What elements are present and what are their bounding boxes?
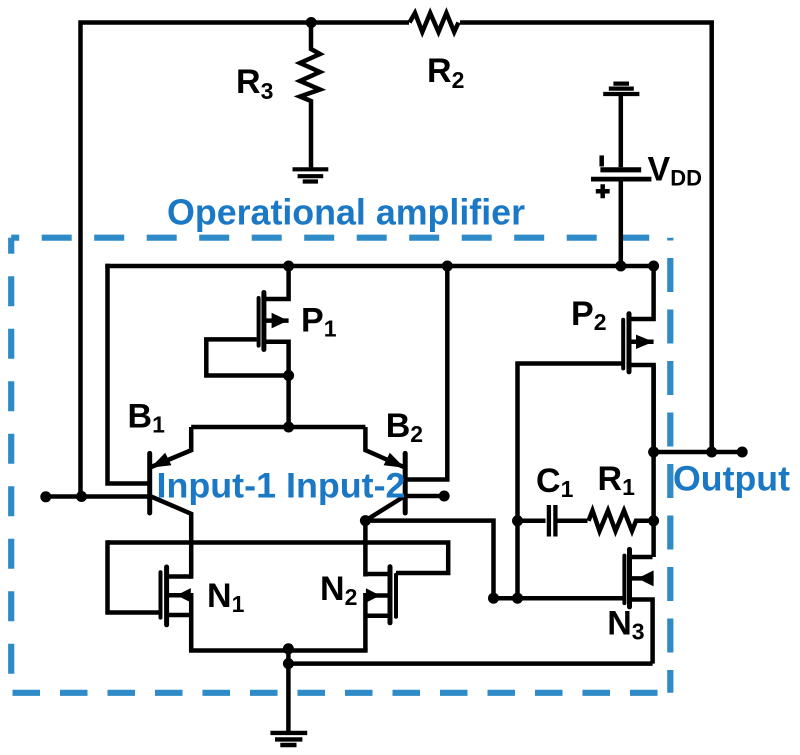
transistor N2 channel bar bbox=[388, 567, 393, 623]
transistor P1 body lead bbox=[265, 318, 289, 323]
wire bottom tail rail bbox=[189, 648, 368, 653]
transistor B2 collector lead bbox=[365, 497, 404, 577]
wire N1 source down bbox=[189, 593, 194, 651]
node ground branch bbox=[283, 658, 294, 669]
wire P2 gate bbox=[518, 364, 626, 599]
wire C1 to R1 bbox=[558, 519, 588, 524]
transistor P1 drain lead bbox=[265, 342, 289, 376]
wire B1 base input bbox=[47, 494, 148, 499]
transistor N1 source lead bbox=[168, 613, 191, 618]
battery VDD long plate bbox=[591, 177, 651, 182]
wire VDD top bbox=[619, 96, 624, 167]
wire inner-right edge to B2 base bbox=[407, 266, 447, 480]
resistor R2 bbox=[410, 13, 459, 32]
transistor P2 channel bar bbox=[627, 314, 632, 372]
node at R3 top bbox=[306, 17, 317, 28]
wire N1 gate loop bbox=[108, 540, 161, 612]
transistor P1 body arrow bbox=[272, 313, 288, 329]
wire mirror gate rail bbox=[108, 543, 449, 574]
wire ground stem bbox=[286, 648, 291, 731]
node B2 collector junction bbox=[360, 515, 371, 526]
battery VDD short plate bbox=[600, 167, 641, 172]
ground below R3 bbox=[293, 169, 329, 181]
transistor P2 gate bar bbox=[621, 320, 625, 369]
transistor N1 drain lead bbox=[168, 574, 191, 579]
wire P1 gate loop bbox=[206, 339, 288, 375]
svg-text:Output: Output bbox=[673, 460, 790, 499]
wire N2 source down bbox=[363, 593, 368, 651]
transistor P1 channel bar bbox=[261, 293, 266, 350]
node gate line left bbox=[488, 593, 499, 604]
wire top-right horizontal bbox=[460, 20, 714, 25]
wire inner-left edge to B1 base bbox=[108, 264, 148, 484]
transistor B2 emitter arrow bbox=[384, 453, 405, 468]
node output feedback bbox=[706, 447, 717, 458]
transistor P2 body lead bbox=[630, 340, 654, 345]
transistor N2 gate bar bbox=[394, 575, 398, 617]
resistor R1 bbox=[589, 511, 654, 532]
svg-text:C1: C1 bbox=[536, 462, 574, 502]
wire output horizontal bbox=[653, 450, 742, 455]
wire VDD bottom bbox=[619, 181, 624, 266]
wire B2 base input bbox=[405, 494, 444, 499]
transistor B1 base bar bbox=[147, 453, 152, 513]
resistor R3 bbox=[300, 23, 320, 170]
wire N3 gate line bbox=[494, 596, 623, 601]
op-amp dashed boundary right edge bbox=[667, 238, 673, 693]
transistor N2 source lead bbox=[365, 613, 388, 618]
transistor N3 drain lead bbox=[631, 555, 653, 560]
svg-text:B1: B1 bbox=[128, 398, 166, 438]
op-amp dashed boundary top edge bbox=[11, 235, 670, 241]
transistor N3 gate bar bbox=[622, 556, 626, 604]
node rail B2-base branch bbox=[442, 261, 453, 272]
svg-text:N1: N1 bbox=[207, 577, 245, 617]
transistor B1 collector lead bbox=[151, 497, 191, 579]
wire output column bbox=[651, 365, 656, 557]
svg-text:N2: N2 bbox=[320, 570, 357, 610]
transistor B1 emitter arrow bbox=[151, 453, 172, 468]
wire N3 source return bbox=[288, 661, 652, 666]
svg-text:Operational amplifier: Operational amplifier bbox=[167, 192, 525, 233]
transistor N1 body lead bbox=[168, 593, 191, 598]
transistor P1 source lead bbox=[265, 264, 289, 299]
ground main bbox=[270, 733, 307, 745]
transistor N1 channel bar bbox=[164, 567, 169, 625]
transistor B1 emitter lead bbox=[150, 427, 191, 468]
node output column bbox=[648, 447, 659, 458]
op-amp dashed boundary left edge bbox=[8, 238, 14, 693]
svg-text:R1: R1 bbox=[598, 460, 636, 500]
battery VDD plus sign bbox=[596, 184, 610, 198]
wire P1 drain down bbox=[286, 376, 291, 428]
node gate line mid bbox=[512, 593, 523, 604]
wire right outer vertical bbox=[709, 21, 714, 453]
wire first-stage output bbox=[365, 521, 493, 599]
node rail P1 bbox=[283, 261, 294, 272]
transistor N3 channel bar bbox=[627, 549, 632, 607]
transistor N2 drain lead bbox=[365, 572, 388, 577]
transistor N3 body arrow bbox=[638, 570, 654, 586]
node R1 right bbox=[648, 515, 659, 526]
svg-text:P1: P1 bbox=[301, 302, 337, 342]
transistor N1 body arrow bbox=[177, 588, 191, 602]
transistor P2 body arrow bbox=[636, 335, 653, 349]
node output terminal bbox=[737, 447, 748, 458]
node Input-2 terminal bbox=[439, 491, 450, 502]
wire left outer vertical bbox=[78, 21, 83, 497]
wire C1 left bbox=[518, 519, 546, 524]
node P1 drain-gate bbox=[283, 370, 294, 381]
capacitor C1 bbox=[549, 505, 556, 537]
transistor P2 source lead bbox=[630, 365, 654, 452]
transistor B2 emitter lead bbox=[365, 427, 405, 468]
svg-text:N3: N3 bbox=[607, 605, 644, 645]
transistor N1 gate bar bbox=[159, 572, 163, 617]
transistor N3 source lead bbox=[631, 600, 653, 664]
svg-text:R3: R3 bbox=[236, 63, 273, 104]
svg-text:R2: R2 bbox=[427, 52, 464, 93]
svg-text:P2: P2 bbox=[571, 295, 606, 335]
transistor B2 base bar bbox=[403, 453, 408, 513]
power ground above VDD bbox=[603, 84, 639, 94]
transistor N2 body arrow bbox=[366, 588, 380, 603]
node rail VDD bbox=[615, 261, 626, 272]
wire top-left horizontal bbox=[79, 20, 410, 25]
op-amp dashed boundary bottom edge bbox=[11, 690, 670, 696]
node C1 left bbox=[512, 515, 523, 526]
battery VDD minus tick bbox=[599, 155, 604, 166]
transistor P1 gate bar bbox=[257, 298, 261, 346]
svg-text:VDD: VDD bbox=[648, 151, 702, 191]
node tail rail bbox=[283, 643, 294, 654]
node emitter bar center bbox=[283, 422, 294, 433]
transistor N3 body lead bbox=[631, 576, 654, 581]
node rail corner P2 bbox=[648, 261, 659, 272]
svg-text:B2: B2 bbox=[386, 407, 423, 447]
svg-text:Input-1 Input-2: Input-1 Input-2 bbox=[157, 467, 406, 506]
node Input-1 terminal bbox=[40, 491, 51, 502]
wire top supply rail bbox=[105, 264, 653, 269]
wire emitter top bar bbox=[191, 425, 365, 430]
transistor P2 drain lead bbox=[630, 264, 654, 319]
transistor N2 body lead bbox=[365, 593, 388, 598]
node input junction bbox=[76, 491, 87, 502]
